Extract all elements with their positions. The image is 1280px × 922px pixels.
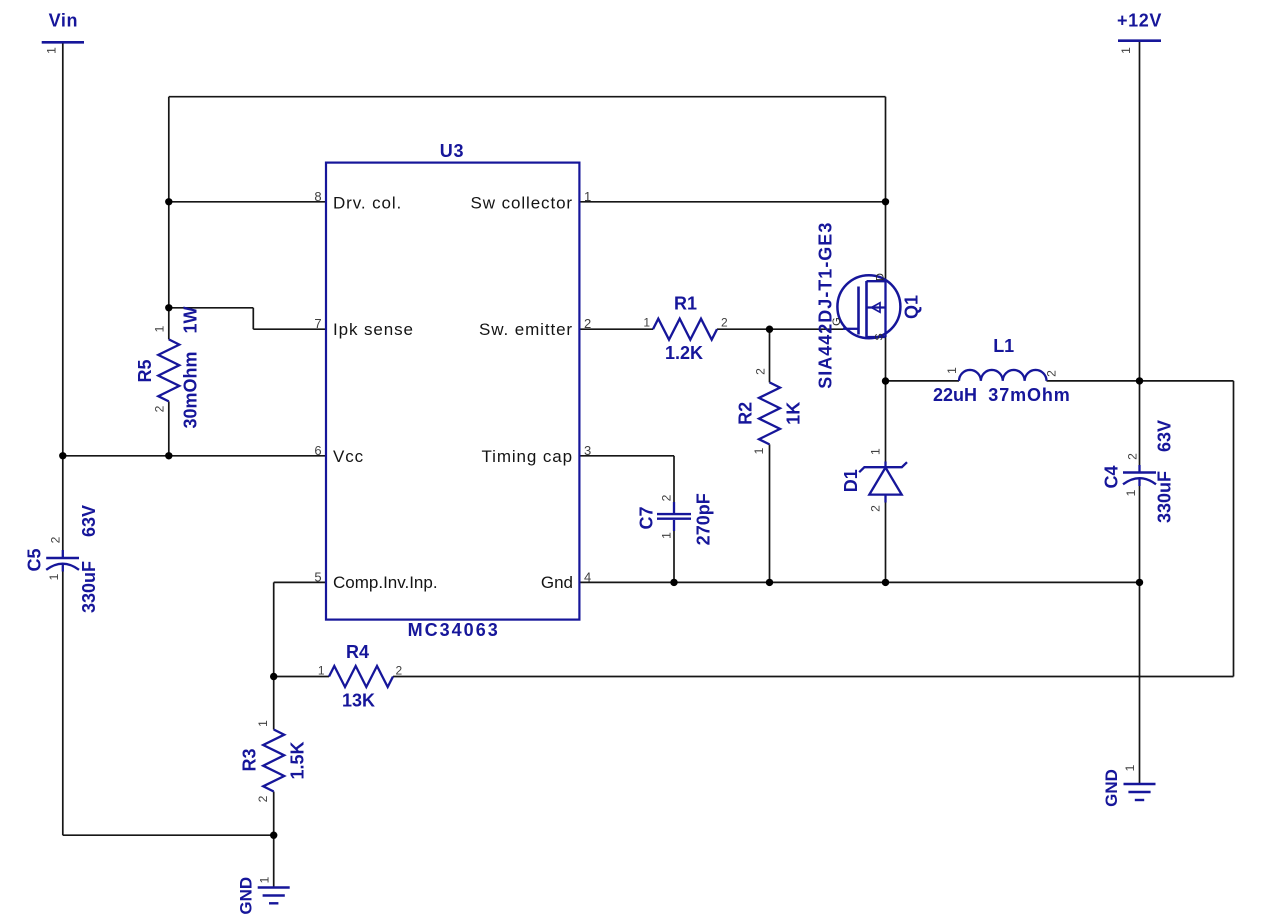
junction R2 / Gnd rail: [766, 579, 773, 586]
wire pin2 Sw emitter to R1: [579, 328, 653, 330]
wire pin7 jog horizontal 1: [169, 307, 254, 309]
svg-text:1: 1: [153, 325, 167, 332]
wire Gnd rail pin4: [579, 581, 1139, 583]
svg-text:U3: U3: [440, 141, 464, 161]
resistor R3: [263, 730, 284, 792]
resistor R2: [759, 382, 780, 444]
wire down to right GND: [1139, 582, 1141, 784]
svg-text:1: 1: [256, 720, 270, 727]
svg-text:30mOhm: 30mOhm: [181, 351, 201, 428]
svg-text:SIA442DJ-T1-GE3: SIA442DJ-T1-GE3: [816, 222, 836, 389]
wire feedback right vertical: [1233, 381, 1235, 677]
svg-text:Ipk sense: Ipk sense: [333, 320, 414, 339]
junction C7 / Gnd rail: [670, 579, 677, 586]
transistor Q1 circle: [837, 275, 900, 338]
svg-text:3: 3: [584, 443, 591, 458]
capacitor C7 pin1 stub: [673, 520, 675, 531]
op-amp U3 MC34063 body: [326, 163, 579, 620]
svg-text:2: 2: [49, 536, 63, 543]
junction C4 / Gnd rail: [1136, 579, 1143, 586]
svg-text:1: 1: [45, 47, 59, 54]
svg-text:330uF: 330uF: [79, 561, 99, 613]
wire pin7 jog vertical: [252, 308, 254, 329]
svg-text:Comp.Inv.Inp.: Comp.Inv.Inp.: [333, 573, 438, 592]
junction R5 pin1 / pin7 jog: [165, 304, 172, 311]
capacitor C5 pin1 stub: [62, 565, 64, 572]
svg-text:6: 6: [314, 443, 321, 458]
transistor Q1 source lead: [867, 336, 886, 338]
svg-text:1: 1: [869, 448, 883, 455]
junction D1 / Gnd rail: [882, 579, 889, 586]
svg-text:1: 1: [318, 664, 325, 678]
svg-text:2: 2: [721, 315, 728, 329]
svg-text:+12V: +12V: [1117, 11, 1162, 31]
wire R5 pin2 to Vcc rail: [168, 401, 170, 455]
wire left column top to R5: [168, 97, 170, 340]
svg-text:1: 1: [258, 876, 272, 883]
svg-text:R3: R3: [240, 748, 260, 771]
svg-text:Sw. emitter: Sw. emitter: [479, 320, 573, 339]
wire pin5 horizontal to U3: [274, 581, 326, 583]
wire Q1 source node to L1 pin1: [886, 380, 960, 382]
power symbol Vin: [42, 41, 84, 44]
capacitor C4 pin1 stub: [1138, 479, 1140, 486]
svg-text:R4: R4: [346, 642, 369, 662]
svg-text:7: 7: [314, 316, 321, 331]
svg-text:1: 1: [1123, 764, 1137, 771]
svg-text:1: 1: [1119, 47, 1133, 54]
transistor Q1 gate bar: [857, 287, 860, 335]
wire L1 pin2 to feedback corner: [1047, 380, 1234, 382]
capacitor C5 top plate: [46, 557, 79, 560]
capacitor C4 curved plate: [1123, 478, 1156, 484]
resistor R4: [329, 666, 393, 687]
wire R2 pin1 down to Gnd rail: [769, 444, 771, 582]
svg-text:MC34063: MC34063: [408, 620, 500, 640]
diode D1 zener cathode bar: [859, 462, 907, 472]
svg-text:GND: GND: [1102, 769, 1121, 807]
svg-text:R1: R1: [674, 294, 697, 314]
svg-text:2: 2: [396, 664, 403, 678]
junction R3-R4 feedback node: [270, 673, 277, 680]
diode D1 pin2 stub: [884, 495, 886, 503]
svg-text:1: 1: [47, 573, 61, 580]
wire R4 pin2 to feedback corner: [393, 676, 1234, 678]
svg-text:63V: 63V: [1155, 420, 1175, 452]
transistor Q1 channel bar: [865, 281, 868, 338]
capacitor C5 curved plate: [46, 564, 79, 570]
svg-text:1: 1: [643, 315, 650, 329]
svg-text:1: 1: [945, 367, 959, 374]
wire to Q1 drain: [885, 202, 887, 281]
wire R4 pin1 stub: [274, 676, 329, 678]
wire pin7 jog horizontal 2: [253, 328, 326, 330]
wire pin3 Timing cap horizontal: [579, 455, 674, 457]
junction +12V output node: [1136, 377, 1143, 384]
wire Q1 source to D1: [885, 337, 887, 462]
svg-text:37mOhm: 37mOhm: [988, 385, 1070, 405]
wire C4 pin1 to Gnd rail: [1139, 486, 1141, 582]
power symbol +12V: [1118, 39, 1161, 42]
wire +12V vertical: [1139, 42, 1141, 381]
svg-text:Drv. col.: Drv. col.: [333, 193, 402, 212]
inductor L1: [959, 370, 1047, 381]
wire top horizontal: [169, 96, 886, 98]
junction Sw collector / top rail: [882, 198, 889, 205]
svg-text:G: G: [831, 317, 843, 326]
svg-text:D1: D1: [841, 469, 861, 492]
diode D1 pin1 stub: [884, 462, 886, 468]
svg-text:Sw collector: Sw collector: [471, 193, 573, 212]
capacitor C4 top plate: [1123, 471, 1156, 474]
capacitor C7 top plate: [657, 513, 691, 515]
svg-text:2: 2: [153, 405, 167, 412]
svg-text:2: 2: [754, 368, 768, 375]
svg-text:2: 2: [1126, 453, 1140, 460]
svg-text:1W: 1W: [181, 306, 201, 333]
wire output node to C4: [1139, 381, 1141, 465]
svg-text:13K: 13K: [342, 691, 375, 711]
transistor Q1 drain lead: [867, 280, 886, 282]
svg-text:1: 1: [584, 189, 591, 204]
svg-text:Q1: Q1: [902, 295, 922, 319]
svg-text:R5: R5: [135, 359, 155, 382]
svg-text:1: 1: [1124, 489, 1138, 496]
svg-text:1.2K: 1.2K: [665, 343, 703, 363]
svg-text:S: S: [874, 333, 886, 340]
svg-text:2: 2: [584, 316, 591, 331]
svg-text:L1: L1: [993, 336, 1014, 356]
svg-text:1: 1: [752, 447, 766, 454]
junction Drv col / top rail: [165, 198, 172, 205]
svg-text:270pF: 270pF: [694, 493, 714, 545]
wire C5 pin1 down to bottom rail: [62, 572, 64, 836]
svg-text:5: 5: [314, 569, 321, 584]
wire pin1 Sw collector: [579, 201, 885, 203]
capacitor C5 pin2 stub: [62, 550, 64, 558]
svg-text:C7: C7: [637, 506, 657, 529]
resistor R5: [158, 339, 179, 401]
junction Vin column / Vcc rail: [59, 452, 66, 459]
svg-text:2: 2: [1045, 370, 1059, 377]
transistor Q1 bulk vertical: [884, 281, 886, 337]
wire bottom-left horizontal to R3 node: [63, 834, 274, 836]
junction Q1 source / L1: [882, 377, 889, 384]
ground GND right: [1124, 783, 1156, 785]
svg-text:Vin: Vin: [49, 11, 78, 31]
svg-text:R2: R2: [736, 402, 756, 425]
transistor Q1 bulk lead with arrow: [867, 306, 886, 308]
wire R1 pin2 to Q1 gate: [717, 328, 843, 330]
svg-text:63V: 63V: [79, 505, 99, 537]
svg-text:C4: C4: [1102, 465, 1122, 488]
capacitor C7 pin2 stub: [673, 502, 675, 513]
wire D1 pin2 to Gnd rail: [885, 503, 887, 583]
wire top right vertical: [885, 97, 887, 202]
svg-text:Vcc: Vcc: [333, 447, 364, 466]
svg-text:C5: C5: [25, 548, 45, 571]
svg-text:D: D: [875, 273, 887, 281]
junction R1-R2 node: [766, 326, 773, 333]
svg-text:GND: GND: [237, 877, 256, 915]
diode D1 triangle: [869, 468, 901, 495]
junction R5 pin2 / Vcc rail: [165, 452, 172, 459]
svg-text:Gnd: Gnd: [541, 573, 573, 592]
svg-text:2: 2: [256, 795, 270, 802]
wire Vcc rail to pin6: [63, 455, 326, 457]
wire pin8 Drv col: [169, 201, 326, 203]
svg-text:1K: 1K: [784, 402, 804, 425]
wire C7 pin1 to Gnd rail: [673, 531, 675, 582]
wire R3 pin2 to bottom junction: [273, 792, 275, 836]
resistor R1: [653, 319, 717, 340]
wire pin5 column down to R3: [273, 582, 275, 729]
transistor Q1 gate lead inside circle: [843, 328, 859, 330]
junction R3 pin2 / bottom rail: [270, 832, 277, 839]
svg-text:1.5K: 1.5K: [288, 741, 308, 779]
svg-text:330uF: 330uF: [1155, 471, 1175, 523]
svg-text:8: 8: [314, 189, 321, 204]
svg-text:Timing cap: Timing cap: [481, 447, 573, 466]
wire pin3 down to C7: [673, 456, 675, 502]
svg-text:1: 1: [660, 532, 674, 539]
wire down to left GND: [273, 835, 275, 887]
capacitor C4 pin2 stub: [1138, 465, 1140, 473]
ground GND left: [258, 886, 290, 888]
svg-text:2: 2: [660, 494, 674, 501]
capacitor C7 bottom plate: [657, 518, 691, 520]
svg-text:2: 2: [869, 505, 883, 512]
svg-text:22uH: 22uH: [933, 385, 977, 405]
wire R2 pin2 stub: [769, 329, 771, 382]
wire Vin vertical down to C5: [62, 44, 64, 551]
svg-text:4: 4: [584, 569, 591, 584]
